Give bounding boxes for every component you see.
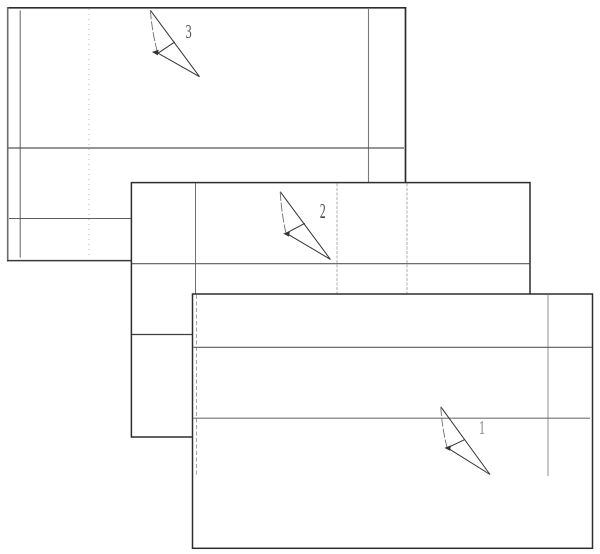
svg-text:1: 1 (479, 416, 485, 439)
sheet 3 left border (7, 7, 9, 261)
arrow 3 shaft (150, 10, 157, 52)
arrow 1 head (444, 445, 451, 450)
svg-text:3: 3 (186, 20, 192, 43)
sheet 3 (back page) (7, 7, 406, 261)
sheet 1 left inner dashed line (196, 295, 198, 476)
sheet 1 right vertical line (547, 295, 549, 476)
arrow 1 lower edge (447, 448, 490, 475)
sheet 2 border (131, 183, 530, 437)
arrow 3 lower edge (158, 53, 200, 76)
label 1 (479, 416, 485, 439)
sheet 3 right vertical line (368, 9, 370, 183)
arrow 3 long edge (150, 10, 199, 76)
arrow 3 barb (158, 42, 175, 53)
sheet 2 upper horizontal line (132, 263, 530, 265)
sheet 3 dotted vertical line (88, 9, 90, 259)
north arrow symbol, sheet 2 (280, 192, 330, 260)
sheet 2 dotted vertical line (336, 184, 338, 295)
sheet 1 (front page) (193, 294, 593, 548)
sheet 3 lower horizontal line (9, 218, 131, 220)
arrow 3 head (152, 50, 159, 56)
north arrow symbol, sheet 3 (150, 10, 199, 76)
sheet 3 top border (7, 7, 406, 9)
arrow 2 shaft (280, 192, 286, 233)
sheet 2 right vertical line (406, 184, 408, 295)
arrow 1 shaft (441, 407, 447, 447)
sheet 2 left vertical line (195, 184, 197, 295)
arrow 2 barb (286, 223, 305, 233)
arrow 2 lower edge (286, 233, 330, 259)
sheet 3 fill (8, 8, 406, 261)
sheet 2 (middle page) (131, 183, 530, 437)
sheet 1 lower horizontal line (193, 417, 590, 419)
arrow 2 head (283, 231, 290, 236)
sheet 3 upper horizontal line (9, 147, 405, 149)
sheet 2 lower horizontal line (132, 334, 193, 336)
sheet 3 right border (405, 7, 407, 183)
svg-text:2: 2 (320, 200, 326, 224)
sheet 3 left margin line (19, 11, 21, 258)
arrow 1 barb (447, 440, 464, 448)
sheet 3 bottom border (7, 260, 193, 262)
north arrow symbol, sheet 1 (441, 407, 490, 475)
arrow 2 long edge (280, 192, 330, 260)
sheet 1 upper horizontal line (193, 346, 592, 348)
label 3 (186, 20, 192, 43)
arrow 1 long edge (441, 407, 490, 475)
label 2 (320, 200, 326, 224)
sheet 1 border (193, 294, 593, 548)
